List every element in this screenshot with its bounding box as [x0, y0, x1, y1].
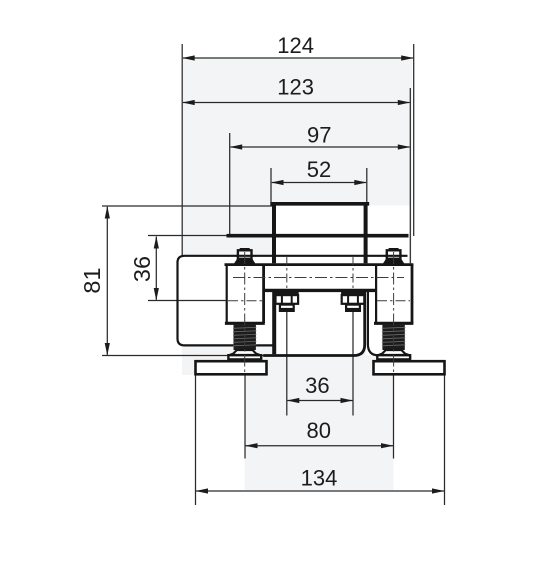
block cross centerline left	[228, 300, 262, 302]
extension line x=229.7 (left, dim 97)	[229, 133, 231, 234]
left threaded stud	[228, 325, 261, 360]
right hex bolt	[341, 292, 365, 311]
extension line x=366.8 (right, dim 52)	[366, 168, 368, 202]
extension line x=271 (left, dim 52)	[270, 168, 272, 202]
centerline left bolt	[286, 256, 288, 291]
right threaded stud	[377, 325, 410, 360]
svg-text:52: 52	[307, 157, 331, 182]
extension line x=182 (left, dims 124/123)	[181, 44, 183, 256]
svg-text:36: 36	[305, 373, 329, 398]
left foot plate	[196, 361, 267, 374]
extension line x=410.3 (right, dims 123/97)	[409, 88, 411, 264]
dimension 36 (vertical)	[129, 236, 159, 301]
top plate bottom edge (thick)	[227, 234, 409, 238]
bottom ext of dim 81	[102, 355, 273, 357]
sliver between left block and box	[263, 290, 275, 325]
lower box fill	[273, 265, 366, 356]
dimension 80	[245, 418, 394, 448]
extension line x=413.7 (right, dim 124)	[413, 44, 415, 236]
right hidden body step	[368, 291, 382, 355]
dimension 123	[182, 75, 410, 106]
svg-text:80: 80	[306, 418, 330, 443]
dimension 52	[271, 157, 367, 185]
bottom ext of dim 36 vertical	[148, 300, 226, 302]
right foot plate	[374, 361, 445, 374]
clamp bar fill	[226, 263, 413, 291]
cylinder body (rounded housing) fill	[178, 256, 367, 346]
svg-text:134: 134	[301, 466, 338, 491]
dimension 81 (vertical)	[79, 206, 110, 356]
gray drawing band	[182, 58, 412, 490]
left clamp block fill	[226, 264, 264, 324]
dimension 36 (bottom)	[287, 373, 353, 403]
cylinder outline	[178, 256, 408, 346]
cylinder top line crossing screw caps	[237, 255, 254, 257]
sliver between box and right block / hidden right body	[366, 290, 413, 355]
centerline right bolt	[352, 256, 354, 291]
top column (52 wide cap) outline	[270, 202, 369, 206]
svg-text:97: 97	[307, 123, 331, 148]
svg-text:123: 123	[277, 75, 314, 100]
block cross centerline right	[377, 300, 410, 302]
dimension 124	[182, 33, 414, 61]
right clamp block fill	[375, 264, 412, 324]
left clamp block outline	[226, 264, 228, 323]
top plate top edge / ext of dim 81	[102, 205, 272, 207]
top column (52 cap) fill	[272, 202, 368, 265]
ext lines bottom dims	[286, 312, 288, 416]
left hex bolt	[275, 292, 299, 311]
svg-text:81: 81	[79, 267, 105, 293]
clamp bar top edge	[225, 263, 414, 266]
left top screw	[234, 248, 256, 264]
bar horizontal centerline	[233, 277, 404, 279]
dimension 134	[196, 466, 445, 494]
right step white area	[368, 206, 411, 265]
centerline left stud	[244, 252, 246, 374]
centerline right stud	[393, 252, 395, 374]
top ext of dim 36 vertical	[148, 235, 227, 237]
clamp bar bottom edge	[263, 289, 376, 292]
svg-text:36: 36	[129, 256, 155, 282]
svg-text:124: 124	[277, 33, 314, 58]
right top screw	[383, 248, 405, 264]
lower box outline	[272, 290, 276, 354]
right clamp block outline	[375, 264, 377, 323]
dimension 97	[230, 123, 411, 150]
